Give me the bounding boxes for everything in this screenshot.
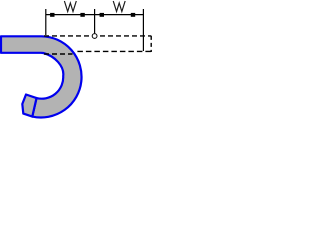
lower dashed line (flat-pattern bottom edge) [77,50,151,52]
label W left [64,1,76,12]
extension line left [45,9,47,35]
arrow blob right-dim left [100,13,104,17]
bend tangent circle marker [92,34,97,39]
lower dashed line short segment over bend [44,53,73,55]
arrow blob left-dim left [50,13,54,17]
extension line right [142,9,144,51]
arrow blob right-dim right [131,13,135,17]
hook strip (bar + 193deg bend), gray fill, blue outline [1,36,82,117]
tip end-face quad [22,95,36,117]
upper dashed line (flat-pattern top edge) [44,35,151,37]
dimension line [46,14,144,16]
arrow blob left-dim right [80,13,84,17]
extension line middle [94,9,96,33]
right dashed vertical (flat-pattern end) [150,36,152,52]
label W right [113,1,125,12]
